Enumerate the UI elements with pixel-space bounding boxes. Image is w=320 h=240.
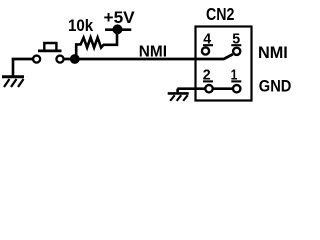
pin 5 — [233, 48, 240, 55]
pin 2 number — [203, 67, 213, 84]
svg-text:NMI: NMI — [258, 44, 288, 62]
wire switch to junction — [64, 58, 75, 61]
wire NMI main — [75, 54, 233, 59]
pin 5 number — [231, 31, 241, 48]
resistor 10k pull-up — [76, 30, 117, 59]
pin 2 — [205, 85, 212, 92]
ground (right) — [168, 89, 189, 101]
ground (left) — [2, 59, 24, 88]
wire GND to pins — [177, 87, 236, 90]
svg-text:+5V: +5V — [104, 9, 135, 27]
svg-text:NMI: NMI — [139, 43, 167, 60]
pin 1 — [233, 85, 240, 92]
+5V power rail symbol — [105, 24, 131, 34]
junction node dot — [70, 54, 80, 64]
connector CN2 box — [196, 27, 252, 101]
svg-text:GND: GND — [259, 76, 292, 95]
svg-text:10k: 10k — [68, 17, 94, 35]
pushbutton switch — [33, 43, 64, 63]
svg-text:CN2: CN2 — [206, 4, 235, 24]
wire ground to switch — [12, 58, 34, 61]
pin 4 number — [203, 31, 213, 48]
pin 4 — [202, 47, 209, 54]
pin 1 number — [231, 67, 242, 84]
